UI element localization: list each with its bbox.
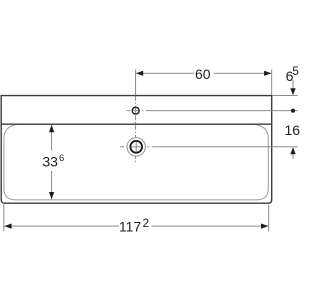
dimension 33.6: down arrowhead bbox=[49, 192, 54, 199]
dimension 6.5: down arrow with tail bbox=[292, 80, 294, 89]
dimension 33.6: up arrowhead bbox=[49, 125, 54, 132]
shared endpoint dot at tap centerline bbox=[291, 109, 295, 113]
dimension 6.5: top edge extension line at right bbox=[273, 95, 298, 97]
tap hole crosshair bbox=[133, 110, 139, 112]
dimension 16: up arrow with tail bbox=[290, 147, 295, 154]
washbasin outer outline (top view) bbox=[1, 96, 272, 204]
dimension 33.6: dimension line bbox=[51, 125, 53, 151]
drain crosshair bbox=[131, 146, 142, 148]
dimension 60: dimension line bbox=[136, 72, 194, 74]
tap hole horizontal centerline with right extension bbox=[127, 110, 147, 112]
drain outer circle bbox=[127, 138, 145, 156]
dimension 117.2: dimension line bbox=[4, 225, 119, 227]
dimension 117.2: right arrowhead bbox=[261, 224, 268, 229]
vertical centerline through tap hole and drain bbox=[135, 96, 137, 163]
svg-text:60: 60 bbox=[195, 66, 211, 82]
dimension 60: right extension line above basin right edge bbox=[271, 70, 273, 95]
svg-text:16: 16 bbox=[285, 122, 301, 138]
dimension 117.2: right extension line bbox=[268, 204, 270, 231]
tap hole bbox=[132, 107, 139, 114]
dimension 60: right arrowhead bbox=[264, 71, 271, 76]
dimension 117.2: left arrowhead bbox=[4, 224, 11, 229]
dimension 60: left arrowhead bbox=[136, 71, 143, 76]
dimension 60: extension line above tap hole bbox=[135, 70, 137, 96]
drain inner circle bbox=[130, 141, 142, 153]
inner bowl outline bbox=[4, 124, 268, 200]
drain horizontal centerline with right extension bbox=[120, 146, 156, 148]
dimension 117.2: left extension line bbox=[3, 204, 5, 231]
deck edge line (full width) bbox=[1, 123, 272, 125]
